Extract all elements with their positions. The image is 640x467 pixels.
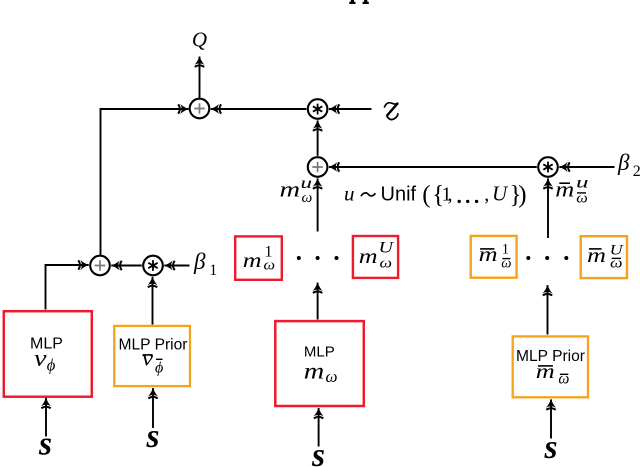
label z xyxy=(384,103,398,120)
wire left-adder to top-adder (up and right) xyxy=(101,109,189,255)
dots between mbar boxes xyxy=(526,256,568,260)
wire s to MLP-prior-nu box xyxy=(152,388,154,428)
wire z to top-multiplier xyxy=(329,108,372,110)
label mbar_omegabar^u xyxy=(555,175,589,207)
wire selected-m to mid-adder xyxy=(317,178,319,231)
svg-text:s: s xyxy=(311,437,325,467)
wire s to MLP-nu box xyxy=(45,398,47,437)
svg-text:s: s xyxy=(38,426,52,463)
svg-text:m: m xyxy=(304,358,325,383)
svg-text:s: s xyxy=(544,429,558,466)
svg-text:): ) xyxy=(518,181,526,208)
svg-text:,: , xyxy=(484,184,489,206)
label u ~ Unif({1,...,U}) xyxy=(344,181,527,208)
svg-text:ω: ω xyxy=(380,256,393,272)
multiplier circle right (asterisk) xyxy=(538,157,558,177)
label beta_1 xyxy=(193,249,217,279)
svg-text:u: u xyxy=(576,175,589,192)
wire MLP-nu box to left-adder (up and right) xyxy=(46,265,89,310)
svg-text:(: ( xyxy=(422,181,430,208)
svg-text:ω: ω xyxy=(326,367,338,386)
wire left-multiplier to left-adder xyxy=(111,265,142,267)
wire MLP-prior-m box to dots row xyxy=(547,285,549,334)
wire MLP-m box to dots row xyxy=(317,283,319,320)
wire beta2 to right-multiplier xyxy=(559,166,614,168)
box MLP Prior mbar_omegabar (orange) xyxy=(513,336,588,397)
wire top-multiplier to top-adder xyxy=(211,108,307,110)
svg-text:U: U xyxy=(379,240,395,257)
svg-text:u: u xyxy=(344,182,355,206)
adder circle mid (plus) xyxy=(308,157,328,177)
box m_omega^U (red) xyxy=(353,236,398,278)
adder circle top (plus) xyxy=(190,99,210,119)
svg-text:β: β xyxy=(193,249,206,274)
svg-text:m: m xyxy=(536,361,555,383)
svg-text:Q: Q xyxy=(192,28,207,52)
svg-text:MLP Prior: MLP Prior xyxy=(119,337,189,354)
svg-text:ω: ω xyxy=(264,258,276,274)
svg-text:m: m xyxy=(359,244,378,268)
svg-text:,: , xyxy=(448,184,453,206)
cropped page text "pp" top xyxy=(349,0,369,4)
svg-text:m: m xyxy=(479,244,498,266)
svg-text:m: m xyxy=(243,248,262,272)
svg-text:β: β xyxy=(617,150,630,175)
wire MLP-prior-nu box to left-multiplier xyxy=(152,277,154,325)
wire Q output arrow xyxy=(199,57,201,99)
svg-text:U: U xyxy=(492,182,509,206)
multiplier circle left (asterisk) xyxy=(143,256,163,276)
box m_omega^1 (red) xyxy=(235,236,282,279)
multiplier circle top (asterisk) xyxy=(308,99,328,119)
svg-text:ω: ω xyxy=(558,370,569,387)
wire s to MLP-m box xyxy=(318,408,320,447)
box MLP Prior nubar_phibar (orange) xyxy=(114,326,190,386)
wire right-multiplier to mid-adder xyxy=(329,166,537,168)
box mbar_omegabar^U (orange) xyxy=(581,236,627,278)
wire selected-mbar to right-multiplier xyxy=(547,178,549,238)
wire mid-adder to top-multiplier xyxy=(317,120,319,155)
box MLP m_omega (red) xyxy=(275,321,364,406)
wire s to MLP-prior-m box xyxy=(550,399,552,438)
svg-text:ω: ω xyxy=(302,190,313,206)
wire beta1 to left-multiplier xyxy=(164,265,189,267)
label m_omega^u xyxy=(280,175,313,206)
adder circle left (plus) xyxy=(90,256,110,276)
svg-text:1: 1 xyxy=(209,262,217,279)
box MLP nu_phi (red) xyxy=(4,311,92,397)
svg-text:m: m xyxy=(280,176,301,201)
label beta_2 xyxy=(617,150,640,180)
svg-text:Unif: Unif xyxy=(381,184,417,206)
svg-text:ν: ν xyxy=(142,346,153,371)
dots between m boxes xyxy=(297,256,339,260)
box mbar_omegabar^1 (orange) xyxy=(471,236,517,278)
svg-text:2: 2 xyxy=(633,163,640,180)
svg-text:m: m xyxy=(555,177,574,202)
svg-text:ν: ν xyxy=(34,346,47,372)
svg-text:ϕ: ϕ xyxy=(155,360,163,377)
svg-text:s: s xyxy=(146,418,160,455)
svg-text:ϕ: ϕ xyxy=(47,356,56,375)
